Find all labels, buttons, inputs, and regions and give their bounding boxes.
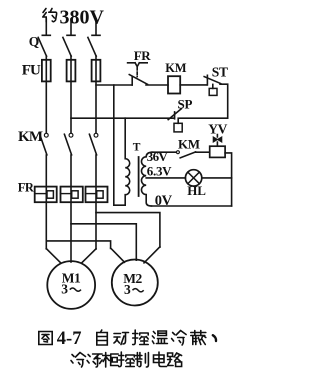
contactor KM aux contact in 36V line bbox=[176, 151, 195, 158]
svg-text:6.3V: 6.3V bbox=[147, 163, 172, 178]
hanzi 控 (line2) bbox=[119, 352, 135, 367]
hanzi 藏 bbox=[191, 331, 206, 345]
transformer T secondary winding bbox=[141, 152, 152, 206]
svg-text:0V: 0V bbox=[155, 193, 173, 209]
wire 36V tap bbox=[152, 151, 177, 153]
wire FR to KM coil bbox=[146, 84, 168, 86]
wire 0V rail bbox=[152, 205, 232, 207]
control circuit top wire bbox=[96, 84, 132, 86]
svg-text:KM: KM bbox=[165, 61, 186, 75]
solenoid valve YV bbox=[210, 135, 225, 158]
hanzi 图 (caption) bbox=[39, 332, 52, 345]
svg-text:380V: 380V bbox=[60, 6, 105, 28]
hanzi 温 bbox=[152, 331, 167, 344]
contactor coil KM bbox=[168, 76, 180, 93]
wire 6.3V tap to lamp bbox=[146, 177, 185, 179]
signal lamp HL bbox=[185, 170, 201, 186]
supply line L2 terminal bbox=[67, 19, 75, 35]
svg-text:FR: FR bbox=[134, 48, 151, 63]
svg-text:KM: KM bbox=[18, 129, 43, 145]
switch Q blade phase 2 bbox=[63, 37, 71, 56]
wire YV to right vertical bbox=[225, 153, 232, 206]
wire phase3 lower bbox=[95, 155, 97, 249]
fuse FU3 bbox=[92, 60, 101, 82]
wire rail to M2 left lead bbox=[46, 241, 124, 262]
thermal relay FR heater 1 bbox=[35, 187, 57, 203]
wire KM aux to YV bbox=[195, 151, 209, 153]
wire phase3 branch to M2 right lead bbox=[96, 213, 160, 263]
hanzi 柜 bbox=[103, 353, 119, 368]
hanzi 电 bbox=[154, 352, 167, 367]
wire KM coil to ST bbox=[180, 84, 207, 86]
svg-text:ST: ST bbox=[212, 65, 228, 80]
contactor KM main contact 2 bbox=[64, 133, 73, 155]
wire ST to right corner and down bbox=[220, 84, 228, 118]
wire SP branch from phase2 bbox=[71, 117, 174, 119]
svg-text:FR: FR bbox=[18, 180, 35, 194]
wire lamp to right vertical bbox=[202, 177, 232, 179]
svg-text:3: 3 bbox=[124, 282, 131, 297]
wire phase3 upper bbox=[95, 56, 97, 133]
pressure switch SP bbox=[168, 109, 182, 132]
hanzi 约 (approx) bbox=[43, 9, 57, 23]
wire phase1 lower bbox=[45, 155, 47, 249]
wire phase2 upper bbox=[70, 56, 72, 133]
transformer T primary winding bbox=[125, 118, 130, 205]
supply line L1 terminal bbox=[42, 19, 50, 35]
svg-text:36V: 36V bbox=[147, 149, 169, 164]
wire phase2 branch to M2 middle lead bbox=[71, 224, 136, 260]
svg-text:4-7: 4-7 bbox=[57, 329, 82, 349]
svg-text:SP: SP bbox=[178, 96, 193, 111]
hanzi 路 bbox=[168, 353, 182, 367]
hanzi 动 bbox=[114, 333, 129, 345]
thermal relay FR heater 2 bbox=[61, 187, 83, 203]
hanzi 自 bbox=[97, 330, 108, 345]
svg-text:KM: KM bbox=[178, 137, 200, 152]
motor M1 bbox=[47, 261, 95, 309]
fuse FU2 bbox=[67, 60, 76, 82]
thermal relay FR NC contact bbox=[128, 63, 148, 85]
wire SP to right vertical bbox=[180, 117, 228, 119]
hanzi 控 bbox=[133, 330, 149, 345]
label M1 3-phase bbox=[61, 282, 81, 297]
svg-text:YV: YV bbox=[208, 122, 227, 137]
thermal relay FR heater 3 bbox=[86, 187, 108, 203]
wire from top wire down at x114 bbox=[114, 85, 125, 205]
supply line L3 terminal bbox=[92, 19, 100, 35]
transformer T core bbox=[138, 157, 140, 196]
wire phase1 upper bbox=[45, 56, 47, 133]
hanzi 冻 bbox=[87, 354, 102, 367]
svg-text:HL: HL bbox=[187, 183, 206, 198]
svg-text:Q: Q bbox=[29, 34, 40, 49]
wire M1 lead left diagonal bbox=[46, 249, 60, 263]
motor M2 bbox=[112, 260, 158, 306]
switch Q blade phase 1 bbox=[38, 37, 46, 56]
wire phase2 lower (into M1) bbox=[70, 155, 72, 262]
label M2 3-phase bbox=[124, 282, 144, 297]
punctuation 、 bbox=[213, 335, 216, 341]
hanzi 冷 (line1) bbox=[172, 331, 187, 346]
hanzi 冷 (line2 c1) bbox=[71, 353, 86, 368]
contactor KM main contact 3 bbox=[89, 133, 98, 155]
hanzi 制 bbox=[135, 353, 149, 368]
svg-text:T: T bbox=[133, 142, 141, 154]
wire M1 lead right diagonal bbox=[82, 249, 96, 263]
contactor KM main contact 1 bbox=[40, 133, 48, 155]
fuse FU1 bbox=[42, 60, 51, 82]
thermostat switch ST bbox=[204, 75, 220, 95]
svg-text:FU: FU bbox=[22, 62, 41, 78]
svg-text:3: 3 bbox=[61, 282, 68, 297]
switch Q blade phase 3 bbox=[88, 37, 96, 56]
